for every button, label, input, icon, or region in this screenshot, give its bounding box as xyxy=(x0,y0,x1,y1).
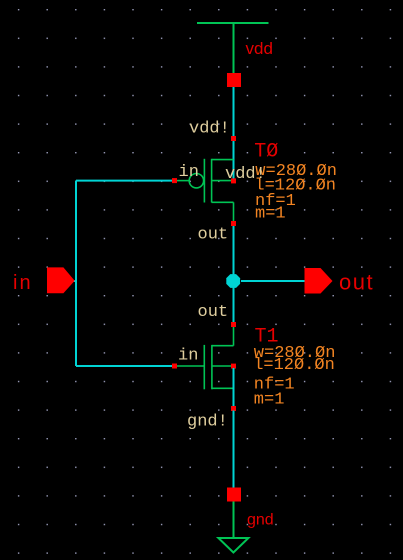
svg-text:out: out xyxy=(339,270,374,295)
T0 bulk pin square xyxy=(231,178,236,183)
gnd ground symbol xyxy=(218,502,248,553)
wire vdd! (vdd pin to T0 source/bulk) xyxy=(233,87,235,179)
node out (solder junction octagon) xyxy=(226,274,240,288)
T0 source pin square xyxy=(231,136,236,141)
svg-text:vdd!: vdd! xyxy=(189,120,230,139)
pin in (input arrow) xyxy=(47,267,75,293)
T1 drain pin square xyxy=(231,322,236,327)
svg-text:vdd!: vdd! xyxy=(225,165,266,184)
svg-text:out: out xyxy=(198,303,229,322)
wire in pin stub xyxy=(73,280,76,282)
svg-text:vdd: vdd xyxy=(246,39,273,58)
wire in (gate wire to T1) xyxy=(76,365,172,367)
T1 bulk pin square xyxy=(231,364,236,369)
svg-text:m=1: m=1 xyxy=(254,391,285,410)
svg-text:m=1: m=1 xyxy=(255,204,286,223)
svg-text:in: in xyxy=(178,347,198,366)
svg-text:in: in xyxy=(13,272,33,294)
svg-text:out: out xyxy=(198,226,229,245)
svg-text:TØ: TØ xyxy=(254,141,278,164)
pin vdd (inout square) xyxy=(227,73,241,87)
svg-text:gnd!: gnd! xyxy=(187,413,228,432)
wire out (node to out pin) xyxy=(241,280,305,282)
wire gnd! (T1 source to gnd pin) xyxy=(233,411,235,488)
svg-text:l=12Ø.Øn: l=12Ø.Øn xyxy=(253,356,335,375)
T0 parameter labels xyxy=(254,162,337,224)
wire gnd! (T1 bulk to source) xyxy=(233,368,235,406)
pin out (output arrow) xyxy=(305,268,333,294)
transistor T1 (NMOS) symbol xyxy=(177,327,234,390)
wire in (gate wire to T0) xyxy=(76,180,172,182)
svg-text:in: in xyxy=(179,163,199,182)
svg-text:gnd: gnd xyxy=(247,512,274,529)
T1 parameter labels xyxy=(253,344,335,410)
T1 gate pin square xyxy=(172,364,177,369)
T0 gate pin square xyxy=(172,178,177,183)
T1 source pin square xyxy=(231,406,236,411)
wire out (T0 drain to T1 drain) xyxy=(233,226,235,322)
T0 drain pin square xyxy=(231,221,236,226)
wire in (vertical) xyxy=(75,181,77,366)
vdd supply rail symbol xyxy=(197,23,269,74)
transistor T0 (PMOS) symbol xyxy=(177,159,234,221)
pin gnd (inout square) xyxy=(227,488,241,502)
